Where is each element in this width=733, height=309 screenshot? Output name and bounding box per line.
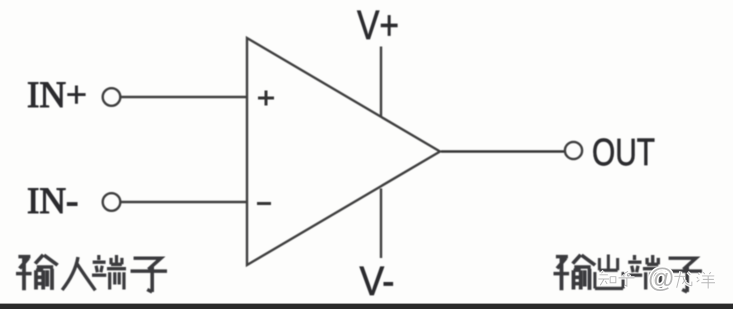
svg-text:V-: V-: [360, 258, 395, 304]
svg-text:IN+: IN+: [27, 75, 87, 116]
bottom separator bar: [0, 304, 733, 309]
svg-text:V+: V+: [357, 2, 399, 48]
terminal OUT: [565, 142, 582, 159]
caption 输入端子 (input terminals): [16, 255, 167, 292]
wire IN+: [121, 96, 246, 98]
wire IN-: [121, 201, 246, 203]
svg-text:IN-: IN-: [27, 181, 78, 222]
wire OUT: [441, 150, 564, 153]
svg-text:@: @: [648, 263, 675, 293]
caption 输出端子 (output terminals): [554, 255, 703, 293]
inverting input marker -: [257, 202, 271, 205]
op-amp U1: [247, 38, 440, 265]
svg-text:OUT: OUT: [592, 132, 655, 174]
non-inverting input marker +: [258, 91, 274, 106]
watermark 知乎@龙洋: [598, 271, 715, 288]
terminal IN-: [103, 193, 121, 211]
wire V+: [380, 47, 382, 118]
wire V-: [380, 189, 382, 259]
terminal IN+: [103, 88, 121, 106]
